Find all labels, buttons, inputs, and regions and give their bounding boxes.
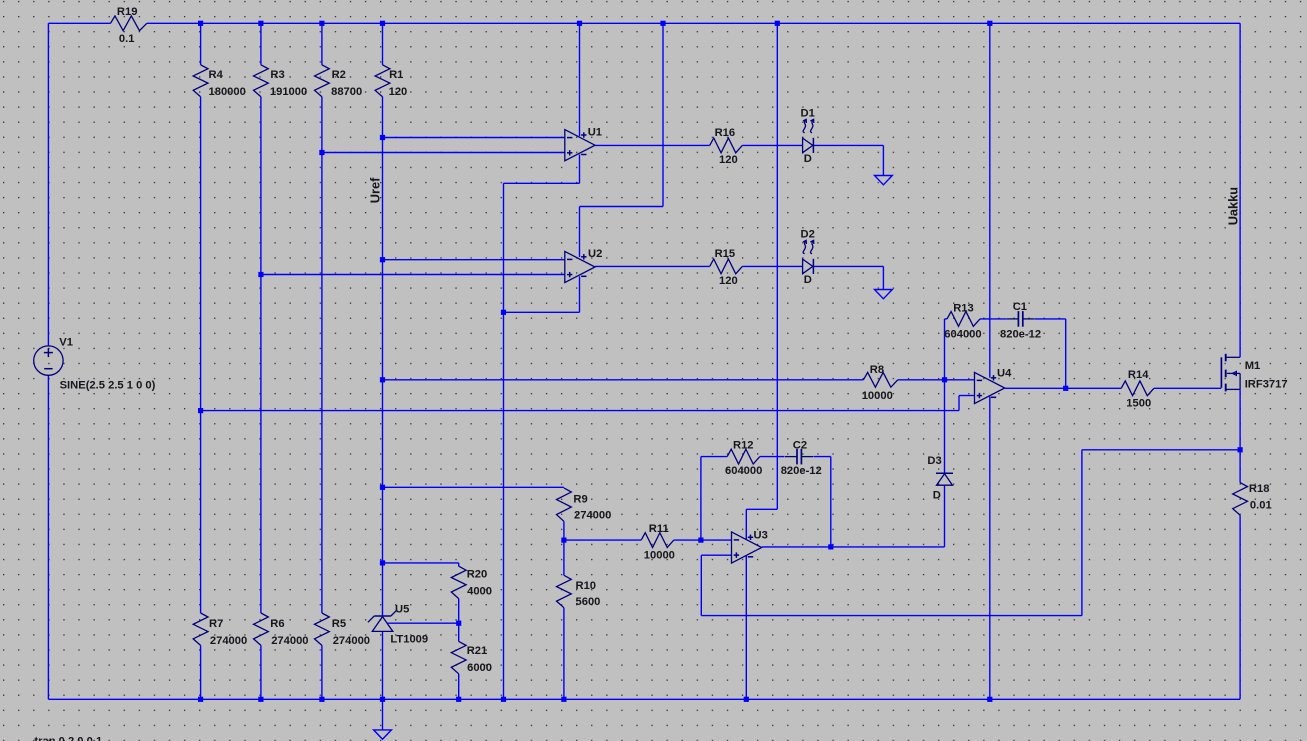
resistor R13 bbox=[947, 312, 980, 327]
component name and value texts bbox=[117, 6, 1272, 674]
wire U1 output y=145.4 bbox=[595, 144, 803, 146]
junction bottom rail x=503.5 bbox=[501, 697, 506, 702]
node Uref label bbox=[368, 177, 383, 203]
svg-text:R11: R11 bbox=[649, 523, 669, 535]
svg-text:C2: C2 bbox=[793, 440, 807, 452]
junction x=1065.7 y=388.3 bbox=[1063, 386, 1068, 391]
label U5 bbox=[395, 603, 409, 615]
wire U1 non-inverting input y=152.5 bbox=[322, 152, 565, 154]
svg-text:820e-12: 820e-12 bbox=[1000, 329, 1041, 341]
resistor R20 bbox=[451, 566, 466, 598]
junction x=260.9 y=274.5 bbox=[258, 272, 263, 277]
wire ground stub bbox=[382, 699, 384, 730]
shunt reference U5 bbox=[368, 610, 397, 632]
svg-text:R12: R12 bbox=[733, 440, 754, 452]
voltage source V1 bbox=[34, 346, 63, 375]
op-amp U1 bbox=[565, 130, 595, 161]
svg-text:R7: R7 bbox=[209, 618, 223, 630]
junction top rail x=260.9 bbox=[258, 21, 263, 26]
wire D3 branch bbox=[944, 380, 946, 547]
wire U2 non-inverting input y=274.5 bbox=[261, 274, 565, 276]
svg-text:R20: R20 bbox=[467, 568, 488, 580]
svg-text:R19: R19 bbox=[117, 6, 138, 18]
op-amp U2 bbox=[565, 251, 595, 282]
resistor R14 bbox=[1121, 381, 1154, 396]
wire R3 column x=260.9 bbox=[260, 23, 262, 699]
resistor R15 bbox=[710, 259, 743, 274]
wire D2 cathode to ground bbox=[813, 266, 883, 289]
svg-text:LT1009: LT1009 bbox=[390, 633, 428, 645]
junction top rail x=579.5 bbox=[577, 21, 582, 26]
svg-text:120: 120 bbox=[389, 86, 408, 98]
wire U3 V- to rail bbox=[745, 556, 747, 699]
svg-text:R1: R1 bbox=[389, 69, 403, 81]
junction x=321.9 y=152.5 bbox=[319, 150, 324, 155]
junction bottom rail x=458.7 bbox=[456, 697, 461, 702]
svg-text:180000: 180000 bbox=[209, 86, 246, 98]
wire U4 V- to rail bbox=[989, 397, 991, 700]
svg-text:U1: U1 bbox=[588, 126, 602, 138]
junction top rail x=382.5 bbox=[380, 21, 385, 26]
junction x=700.9 y=540.1 bbox=[698, 538, 703, 543]
label U2 bbox=[588, 248, 602, 260]
value LT1009 bbox=[390, 633, 428, 645]
svg-text:6000: 6000 bbox=[467, 662, 492, 674]
svg-text:U4: U4 bbox=[997, 368, 1012, 380]
svg-text:274000: 274000 bbox=[333, 635, 370, 647]
svg-text:R2: R2 bbox=[332, 69, 346, 81]
svg-text:D: D bbox=[804, 153, 812, 165]
junction x=563.9 y=540.1 bbox=[561, 538, 566, 543]
svg-text:R21: R21 bbox=[467, 645, 488, 657]
svg-text:R18: R18 bbox=[1249, 483, 1270, 495]
wire R8 row y=379.8 bbox=[383, 379, 975, 381]
capacitor C2 bbox=[785, 449, 813, 465]
svg-text:10000: 10000 bbox=[862, 390, 893, 402]
wire R13 branch bbox=[945, 319, 1066, 388]
svg-text:88700: 88700 bbox=[331, 86, 362, 98]
wire U1 V- path bbox=[504, 155, 580, 700]
svg-text:IRF3717: IRF3717 bbox=[1245, 378, 1288, 390]
junction Uref y=379.8 bbox=[380, 377, 385, 382]
svg-text:C1: C1 bbox=[1013, 301, 1027, 313]
resistor R1 bbox=[375, 65, 390, 97]
junction x=1240 y=449.8 bbox=[1238, 447, 1243, 452]
svg-text:1500: 1500 bbox=[1126, 398, 1151, 410]
wire sense row y=410.6 bbox=[201, 410, 959, 412]
svg-text:R13: R13 bbox=[953, 303, 974, 315]
wire R9 row y=487.3 bbox=[383, 486, 564, 488]
resistor R21 bbox=[451, 641, 466, 673]
junction x=200.6 y=410.6 bbox=[198, 408, 203, 413]
wire R9-R10 column bbox=[563, 521, 565, 699]
node Uakku label bbox=[1226, 187, 1241, 225]
op-amp U3 bbox=[732, 532, 762, 563]
svg-text:D1: D1 bbox=[801, 107, 815, 119]
junction Uref y=259.7 bbox=[380, 257, 385, 262]
wire V+ column x=777 to U3 bbox=[746, 23, 777, 539]
junction top rail x=200.6 bbox=[198, 21, 203, 26]
wire top supply rail y=23 bbox=[48, 22, 1240, 24]
svg-text:U5: U5 bbox=[395, 603, 409, 615]
resistor R4 bbox=[193, 65, 208, 97]
resistor R8 bbox=[863, 372, 897, 387]
label U1 bbox=[588, 126, 602, 138]
svg-text:R14: R14 bbox=[1128, 369, 1149, 381]
wire R4 column x=200.6 bbox=[200, 23, 202, 699]
svg-text:604000: 604000 bbox=[725, 465, 762, 477]
spice directive tran bbox=[34, 736, 102, 741]
resistor R5 bbox=[315, 613, 330, 645]
wire U1 inverting input y=137.5 bbox=[383, 137, 565, 139]
wire R12 branch bbox=[701, 457, 831, 547]
resistor R6 bbox=[254, 613, 269, 645]
value SINE(2.5 2.5 1 0 0) bbox=[60, 380, 156, 392]
junction top rail x=321.9 bbox=[319, 21, 324, 26]
resistor R7 bbox=[193, 613, 208, 645]
resistor R3 bbox=[254, 65, 269, 97]
resistor R19 bbox=[111, 16, 147, 31]
ground D1 bbox=[875, 176, 893, 185]
label U4 bbox=[997, 368, 1012, 380]
wire U4 V+ stub x=989.8 bbox=[989, 23, 991, 377]
wire battery feedback bbox=[701, 450, 1240, 616]
svg-text:274000: 274000 bbox=[210, 635, 247, 647]
svg-text:D3: D3 bbox=[927, 455, 941, 467]
junction Uref y=487.3 bbox=[380, 485, 385, 490]
junction top rail x=989.8 bbox=[987, 21, 992, 26]
wire D1 cathode to ground bbox=[813, 145, 883, 175]
svg-text:5600: 5600 bbox=[576, 596, 601, 608]
junction bottom rail x=260.9 bbox=[258, 697, 263, 702]
svg-text:U3: U3 bbox=[754, 530, 768, 542]
wire R20-R21 column bbox=[458, 563, 460, 699]
junction top rail x=663 bbox=[660, 21, 665, 26]
svg-text:V1: V1 bbox=[59, 337, 73, 349]
wire U1 V+ stub x=579.5 bbox=[579, 23, 581, 136]
junction top rail x=777.3 bbox=[775, 21, 780, 26]
wire V1 column x=48 bbox=[47, 23, 49, 699]
svg-text:191000: 191000 bbox=[270, 86, 307, 98]
svg-text:10000: 10000 bbox=[644, 549, 675, 561]
op-amp U4 bbox=[975, 372, 1005, 403]
resistor R16 bbox=[710, 138, 743, 153]
junction bottom rail x=200.6 bbox=[198, 697, 203, 702]
svg-text:Uref: Uref bbox=[368, 177, 383, 203]
svg-text:0.1: 0.1 bbox=[119, 33, 135, 45]
wire U2 output y=266.4 bbox=[595, 265, 803, 267]
label V1 bbox=[59, 337, 73, 349]
svg-text:tran 0 2 0 0.1: tran 0 2 0 0.1 bbox=[34, 736, 102, 741]
junction Uref y=562.9 bbox=[380, 560, 385, 565]
junction x=944.5 y=379.8 bbox=[942, 377, 947, 382]
wire U4 non-inverting stub bbox=[959, 396, 975, 411]
wire U4 output y=388.3 bbox=[1005, 387, 1221, 389]
LED D2 bbox=[803, 240, 814, 274]
svg-text:274000: 274000 bbox=[574, 510, 611, 522]
wire U5 to junction y=623.2 bbox=[388, 622, 459, 624]
svg-text:R8: R8 bbox=[870, 364, 884, 376]
svg-text:4000: 4000 bbox=[467, 586, 492, 598]
junction x=830.8 y=546.9 bbox=[828, 544, 833, 549]
resistor R12 bbox=[727, 449, 760, 464]
svg-text:R16: R16 bbox=[715, 127, 736, 139]
LED D1 bbox=[803, 119, 814, 153]
junction bottom rail x=382.5 bbox=[380, 697, 385, 702]
capacitor C1 bbox=[1006, 311, 1034, 327]
svg-text:120: 120 bbox=[719, 154, 738, 166]
label M1 bbox=[1245, 360, 1261, 372]
svg-text:Uakku: Uakku bbox=[1226, 187, 1241, 225]
svg-text:R3: R3 bbox=[270, 69, 284, 81]
wire R11 row y=540.1 bbox=[564, 539, 732, 541]
ground main bbox=[374, 730, 392, 739]
wire Uref column x=382.5 bbox=[382, 23, 384, 699]
junction x=458.7 y=623.2 bbox=[456, 621, 461, 626]
svg-text:SINE(2.5 2.5 1 0 0): SINE(2.5 2.5 1 0 0) bbox=[60, 380, 156, 392]
svg-text:R5: R5 bbox=[332, 618, 346, 630]
svg-text:274000: 274000 bbox=[271, 635, 308, 647]
resistor R10 bbox=[557, 575, 572, 607]
svg-text:D2: D2 bbox=[801, 228, 815, 240]
svg-text:120: 120 bbox=[719, 275, 738, 287]
wire U2 V+ path bbox=[580, 23, 664, 257]
junction bottom rail x=989.8 bbox=[987, 697, 992, 702]
nmos M1 bbox=[1221, 354, 1240, 392]
svg-text:R6: R6 bbox=[270, 618, 284, 630]
wire Uakku column x=1240 bbox=[1239, 23, 1241, 699]
wire U3 output y=546.9 bbox=[762, 546, 945, 548]
svg-text:0.01: 0.01 bbox=[1250, 499, 1272, 511]
resistor R9 bbox=[557, 488, 572, 521]
svg-text:820e-12: 820e-12 bbox=[781, 465, 822, 477]
svg-text:R15: R15 bbox=[715, 248, 736, 260]
junction bottom rail x=746.3 bbox=[744, 697, 749, 702]
svg-text:R9: R9 bbox=[573, 493, 587, 505]
svg-text:D: D bbox=[804, 274, 812, 286]
resistor R11 bbox=[641, 533, 674, 548]
wire Uref to R20 y=562.9 bbox=[383, 562, 459, 564]
wire R2 column x=321.9 bbox=[321, 23, 323, 699]
resistor R18 bbox=[1233, 483, 1248, 516]
svg-text:604000: 604000 bbox=[944, 329, 981, 341]
svg-text:R4: R4 bbox=[209, 69, 224, 81]
junction x=503.5 y=312.3 bbox=[501, 310, 506, 315]
svg-text:M1: M1 bbox=[1245, 360, 1261, 372]
value IRF3717 bbox=[1245, 378, 1288, 390]
ground D2 bbox=[875, 290, 893, 299]
svg-text:D: D bbox=[933, 490, 941, 502]
svg-text:U2: U2 bbox=[588, 248, 602, 260]
wire U2 V- stub bbox=[504, 276, 580, 312]
junction bottom rail x=321.9 bbox=[319, 697, 324, 702]
svg-text:R10: R10 bbox=[576, 580, 597, 592]
junction Uref y=137.5 bbox=[380, 135, 385, 140]
resistor R2 bbox=[315, 65, 330, 97]
wire bottom ground rail y=699.3 bbox=[48, 698, 1240, 700]
label U3 bbox=[754, 530, 768, 542]
junction bottom rail x=563.9 bbox=[561, 697, 566, 702]
diode D3 bbox=[936, 473, 953, 485]
wire U2 inverting input y=259.7 bbox=[383, 259, 565, 261]
